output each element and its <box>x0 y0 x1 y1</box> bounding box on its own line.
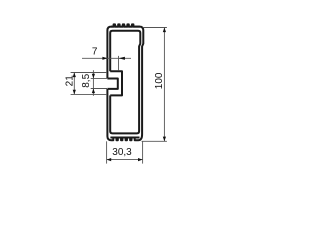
dimension 7: left arrow <box>102 57 107 60</box>
svg-text:8,5: 8,5 <box>81 73 92 87</box>
dimension 30,3: line <box>107 159 143 161</box>
dimension 100: label <box>154 72 165 89</box>
dimension 30,3: extension line right <box>142 141 144 163</box>
dimension 21: top arrow <box>73 73 76 78</box>
dimension 7: right arrow <box>119 57 125 60</box>
dimension 8,5: label <box>81 73 92 87</box>
bottom knurl base line <box>110 137 139 139</box>
profile inner contour <box>110 31 140 134</box>
dimension 100: bottom arrow <box>163 137 166 142</box>
dimension 21: extension line top <box>71 72 107 74</box>
top knurl base line <box>111 26 140 28</box>
svg-text:30,3: 30,3 <box>112 147 132 158</box>
svg-text:21: 21 <box>64 75 75 87</box>
svg-text:100: 100 <box>154 72 165 89</box>
dimension 30,3: right arrow <box>138 158 143 161</box>
dimension 7: label <box>92 46 98 57</box>
dimension 100: line <box>163 28 165 142</box>
dimension 21: line <box>73 73 75 95</box>
slot (channel opening) <box>107 79 117 89</box>
dimension 30,3: left arrow <box>107 158 112 161</box>
dimension 21: label <box>64 75 75 87</box>
svg-text:7: 7 <box>92 46 98 57</box>
profile outer contour with knurled top and bottom edges <box>107 24 143 140</box>
dimension 8,5: lower arrow <box>92 89 95 94</box>
boss (channel block) outline <box>110 71 122 95</box>
dimension 7: right extension line <box>118 56 120 70</box>
dimension 8,5: line <box>92 70 94 96</box>
dimension 30,3: extension line left <box>106 141 108 163</box>
dimension 21: extension line bottom <box>71 93 107 95</box>
dimension 100: top arrow <box>163 28 166 33</box>
dimension 8,5: extension line bottom <box>91 88 107 90</box>
dimension 7: line <box>82 57 131 59</box>
dimension 100: extension line top <box>143 27 167 29</box>
dimension 8,5: upper arrow <box>92 74 95 79</box>
dimension 30,3: label <box>112 147 132 158</box>
dimension 8,5: extension line top <box>91 77 107 79</box>
dimension 100: extension line bottom <box>142 140 167 142</box>
dimension 21: bottom arrow <box>73 90 76 95</box>
